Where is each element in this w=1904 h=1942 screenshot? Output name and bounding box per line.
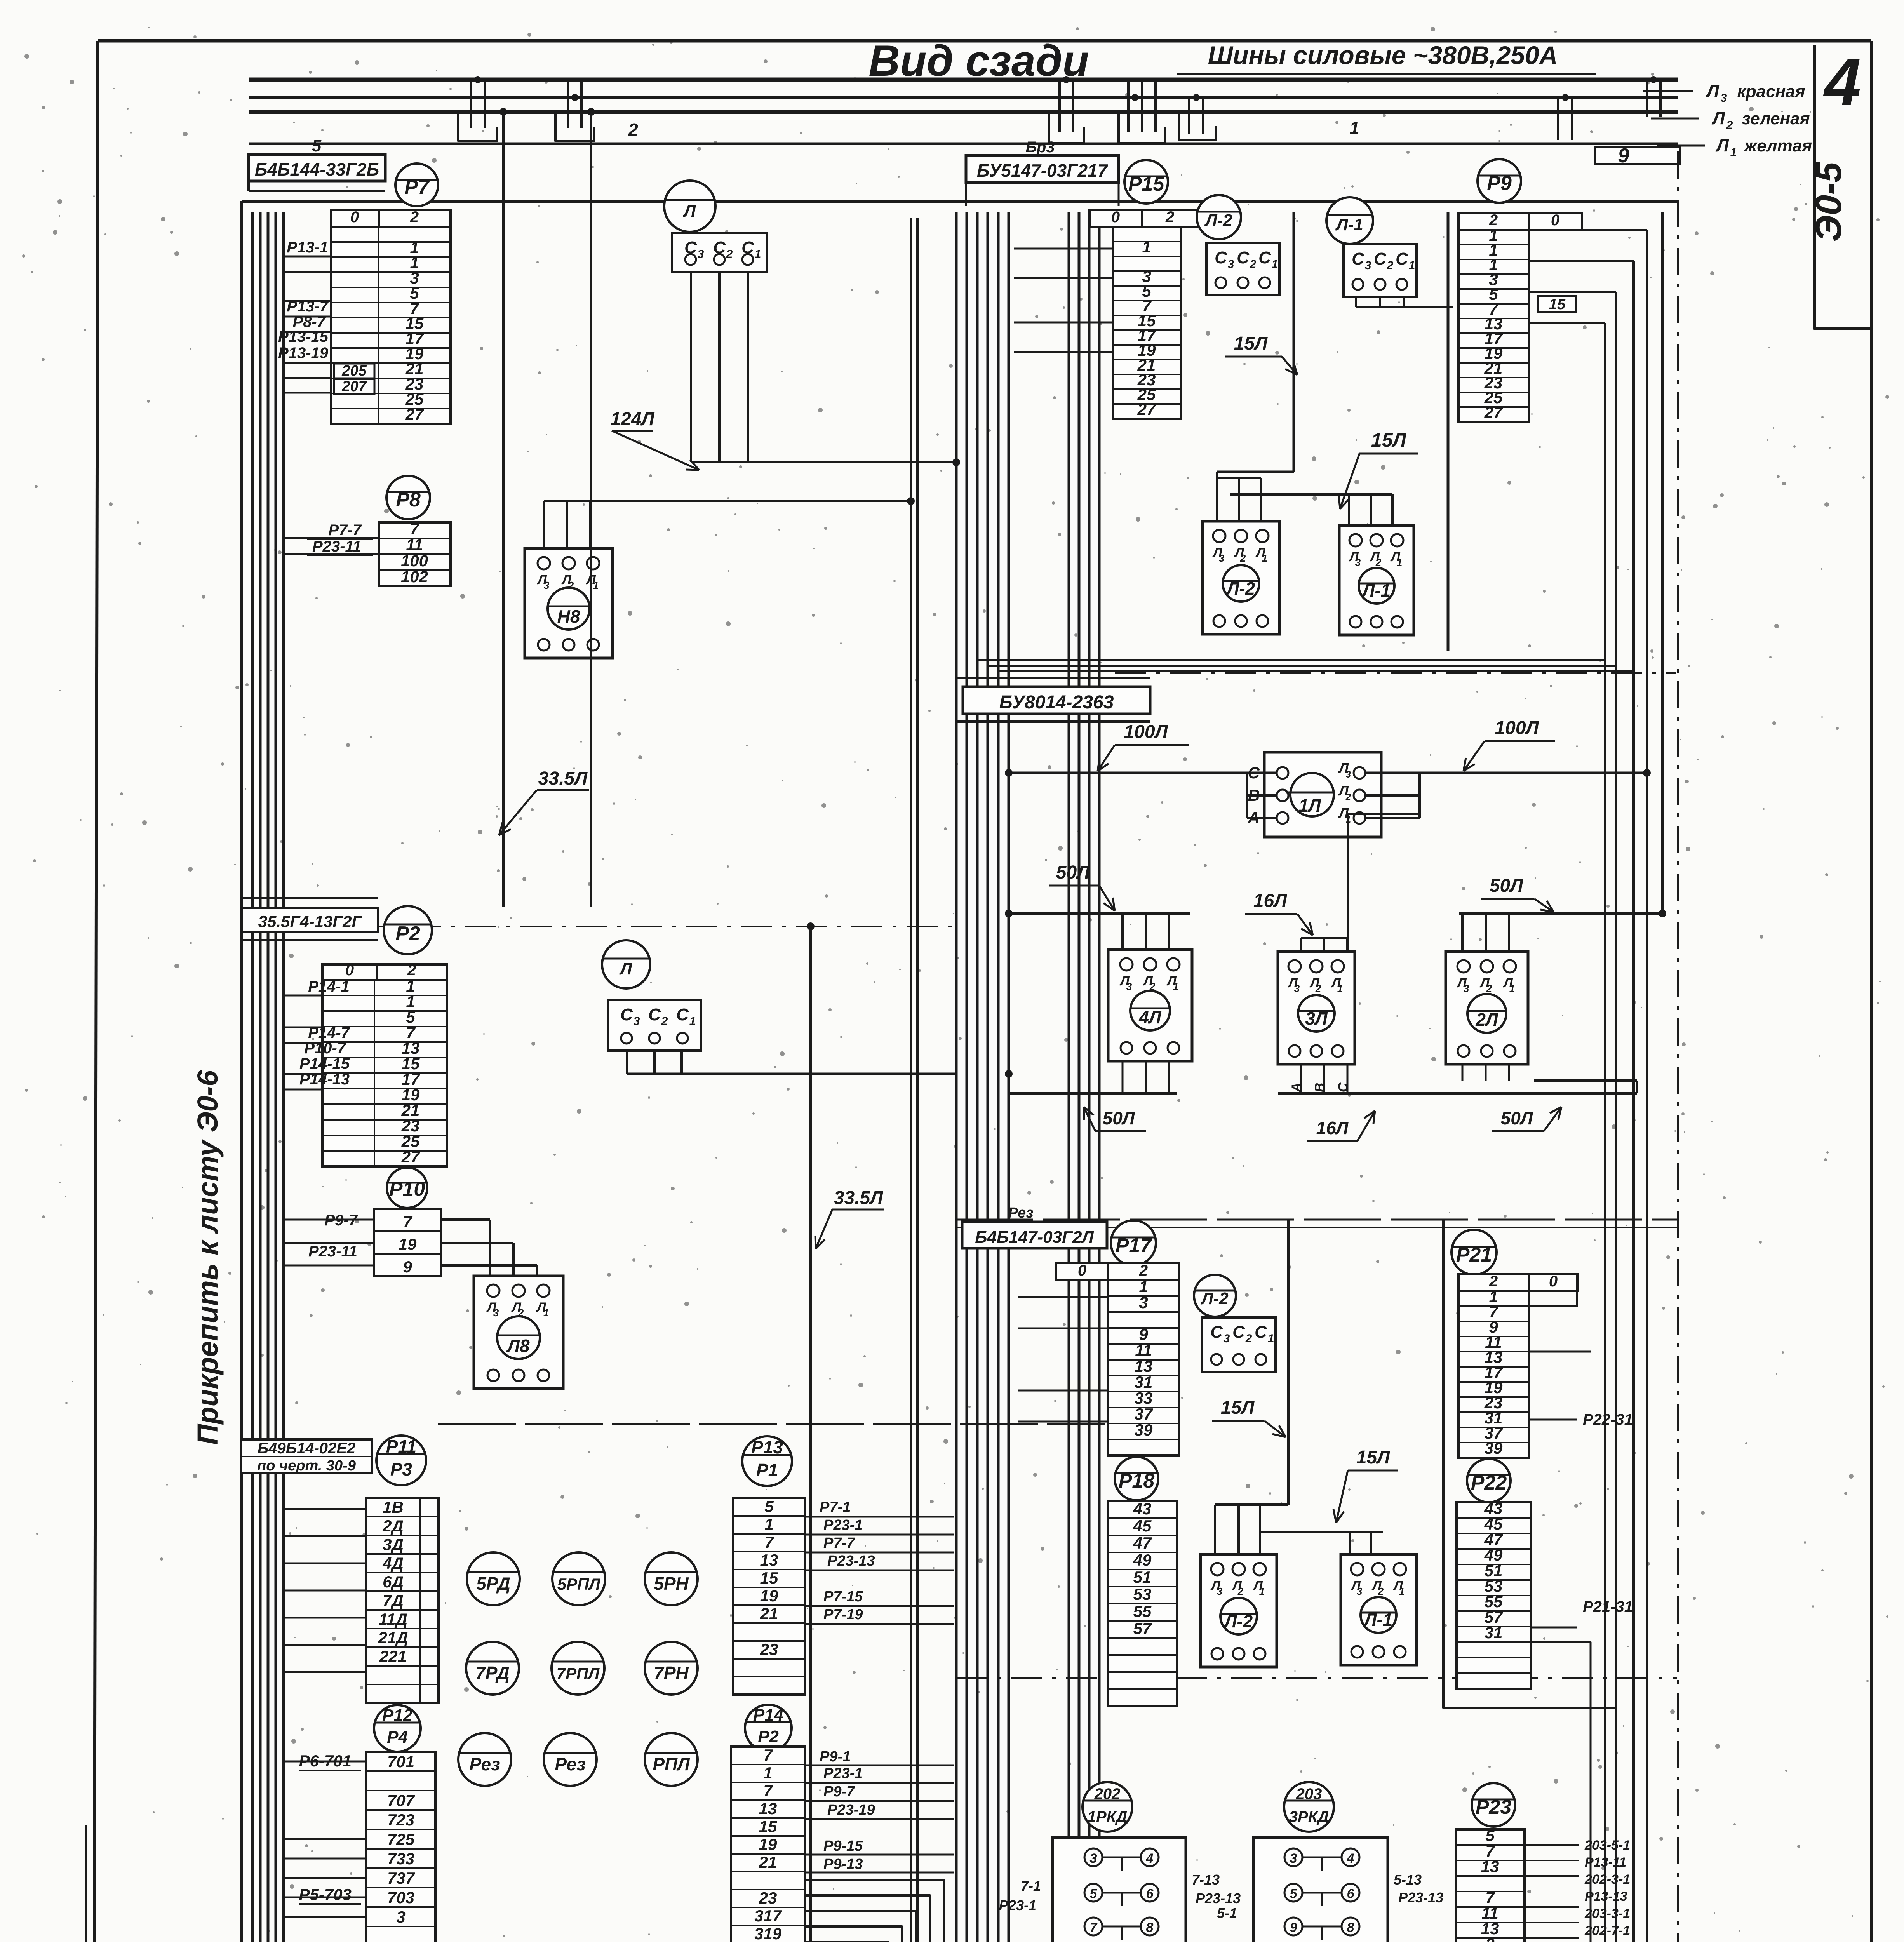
svg-text:3: 3 [1290, 1851, 1297, 1866]
svg-text:15Л: 15Л [1234, 333, 1268, 354]
svg-text:15: 15 [1549, 296, 1566, 313]
svg-text:1: 1 [1262, 552, 1267, 564]
svg-text:Рез: Рез [555, 1754, 585, 1774]
1Л left terminals С В А [1277, 767, 1288, 779]
wire 16Л drop [1348, 813, 1420, 815]
svg-text:9: 9 [1139, 1325, 1148, 1343]
svg-text:39: 39 [1485, 1439, 1503, 1457]
svg-text:1: 1 [1259, 1585, 1265, 1597]
svg-text:желтая: желтая [1744, 136, 1812, 155]
svg-text:Р13-1: Р13-1 [287, 239, 328, 256]
relay designator P10 [387, 1168, 427, 1208]
mid cable pair 124Л riser [910, 218, 912, 1942]
svg-text:27: 27 [1137, 400, 1156, 418]
svg-text:733: 733 [387, 1850, 414, 1868]
svg-text:Р7-19: Р7-19 [823, 1606, 863, 1623]
wires from Л unit down to cross run 124Л [690, 272, 692, 462]
terminal strip P21 [1458, 1291, 1529, 1458]
svg-text:5: 5 [1290, 1886, 1298, 1901]
svg-text:221: 221 [379, 1647, 407, 1665]
svg-text:2: 2 [568, 579, 574, 591]
svg-text:Рез: Рез [1008, 1205, 1033, 1221]
svg-text:317: 317 [754, 1907, 782, 1925]
box 9 cable tag [1595, 147, 1680, 164]
svg-text:0: 0 [1078, 1262, 1086, 1279]
wire stubs P12 [283, 1761, 366, 1763]
svg-text:124Л: 124Л [610, 409, 654, 430]
svg-text:33.5Л: 33.5Л [538, 768, 588, 789]
svg-text:703: 703 [387, 1888, 414, 1907]
svg-text:3: 3 [493, 1307, 499, 1319]
svg-text:3Д: 3Д [383, 1535, 404, 1554]
svg-text:Р23: Р23 [1476, 1796, 1512, 1818]
svg-text:С: С [648, 1005, 661, 1024]
svg-text:202: 202 [1094, 1785, 1121, 1803]
svg-text:по черт. 30-9: по черт. 30-9 [257, 1458, 356, 1474]
relay circle Рез2 [544, 1733, 597, 1786]
terminal strip P18 [1108, 1501, 1177, 1706]
svg-text:15Л: 15Л [1356, 1447, 1390, 1468]
nested elbow wires P9 to right bundle [1529, 229, 1647, 231]
svg-text:Р11: Р11 [386, 1436, 416, 1456]
pump unit 1Л [1264, 752, 1381, 837]
svg-text:50Л: 50Л [1056, 862, 1090, 883]
svg-text:15: 15 [760, 1569, 778, 1587]
wire run 50Л left [1009, 912, 1190, 915]
svg-text:3: 3 [1485, 1935, 1494, 1942]
svg-text:37: 37 [1135, 1405, 1153, 1423]
riser 50Л right [1661, 212, 1664, 914]
svg-text:5: 5 [764, 1497, 774, 1516]
svg-text:202-7-1: 202-7-1 [1584, 1923, 1630, 1938]
svg-text:Р21-31: Р21-31 [1583, 1598, 1633, 1615]
svg-text:207: 207 [341, 378, 367, 395]
svg-text:1: 1 [763, 1764, 772, 1782]
right bundle verticals [1604, 323, 1606, 1942]
svg-text:7РПЛ: 7РПЛ [557, 1664, 600, 1683]
relay designator P14 P2c [745, 1705, 792, 1751]
svg-text:4: 4 [1823, 45, 1861, 119]
svg-text:1: 1 [1349, 118, 1359, 138]
svg-text:16Л: 16Л [1316, 1118, 1349, 1138]
switch designator 202 1РКД [1083, 1782, 1132, 1832]
svg-text:5РН: 5РН [654, 1573, 689, 1594]
svg-text:11: 11 [1135, 1341, 1152, 1359]
relay circle 7РН [645, 1642, 698, 1695]
svg-text:19: 19 [399, 1235, 417, 1253]
relay designator P17 [1111, 1220, 1156, 1265]
svg-text:Бр3: Бр3 [1026, 139, 1055, 156]
svg-text:2Д: 2Д [382, 1517, 404, 1535]
svg-text:27: 27 [401, 1148, 420, 1166]
svg-text:1: 1 [1139, 1277, 1148, 1296]
cable tag БУ8014-2363 [956, 677, 1150, 679]
svg-text:2: 2 [1345, 792, 1351, 802]
svg-text:5: 5 [1090, 1886, 1098, 1901]
svg-text:С: С [1215, 248, 1227, 267]
svg-text:Р13-7: Р13-7 [287, 298, 329, 315]
svg-text:1В: 1В [383, 1498, 404, 1516]
svg-text:3: 3 [1355, 557, 1361, 568]
svg-text:Р9-7: Р9-7 [325, 1212, 358, 1229]
svg-text:Р23-13: Р23-13 [1398, 1890, 1443, 1905]
left panel edge [240, 201, 243, 1942]
svg-text:1: 1 [1268, 1332, 1274, 1345]
terminal strip P9 [1458, 230, 1529, 422]
terminal strip P21 header [1458, 1274, 1529, 1291]
svg-text:21: 21 [759, 1853, 777, 1871]
wires Н8 to riser [543, 501, 545, 548]
wires Л8 to left bundle [441, 1218, 490, 1221]
motor unit 3Л [1278, 952, 1355, 1064]
svg-text:2: 2 [1250, 258, 1257, 271]
svg-text:1: 1 [1272, 258, 1278, 271]
svg-text:Р8: Р8 [396, 489, 421, 511]
svg-text:6: 6 [1146, 1886, 1154, 1901]
svg-text:3: 3 [698, 248, 704, 261]
left cable bundle [251, 212, 254, 1942]
svg-text:3: 3 [1346, 769, 1351, 780]
svg-text:Шины силовые ~380В,250А: Шины силовые ~380В,250А [1208, 41, 1558, 70]
svg-text:203-5-1: 203-5-1 [1584, 1838, 1630, 1853]
terminal strip P13 [733, 1498, 805, 1695]
svg-text:Р9-7: Р9-7 [823, 1784, 855, 1800]
terminal strip P10 [374, 1209, 441, 1276]
svg-text:2Л: 2Л [1475, 1009, 1498, 1030]
svg-text:Р23-13: Р23-13 [1196, 1890, 1241, 1906]
svg-text:1: 1 [1173, 981, 1178, 992]
svg-text:2: 2 [628, 120, 638, 140]
svg-text:А: А [1289, 1083, 1304, 1093]
svg-text:Р7-7: Р7-7 [823, 1535, 855, 1551]
relay circle 7РПЛ [552, 1642, 604, 1695]
svg-text:100Л: 100Л [1124, 722, 1168, 742]
svg-text:Р23-11: Р23-11 [312, 538, 361, 555]
svg-text:Р9: Р9 [1487, 172, 1512, 195]
svg-text:55: 55 [1133, 1602, 1152, 1620]
svg-text:7-1: 7-1 [1021, 1878, 1041, 1894]
svg-text:8: 8 [1146, 1920, 1154, 1935]
svg-text:19: 19 [760, 1587, 778, 1605]
svg-text:Р22: Р22 [1471, 1472, 1507, 1494]
terminal strip P14 [731, 1747, 805, 1942]
wires from mid Л unit to cross run [626, 1051, 628, 1074]
terminal strip P11 [366, 1498, 439, 1703]
svg-text:53: 53 [1133, 1585, 1152, 1603]
svg-text:Л-2: Л-2 [1224, 1611, 1253, 1631]
lamp unit Л-2 top with С3С2С1 [1197, 195, 1241, 239]
svg-text:С: С [620, 1005, 633, 1024]
left border inner line [85, 1825, 86, 1942]
svg-text:27: 27 [405, 405, 424, 423]
svg-text:Э0-5: Э0-5 [1808, 162, 1849, 242]
svg-text:15Л: 15Л [1221, 1397, 1255, 1418]
svg-text:319: 319 [754, 1925, 782, 1942]
svg-text:4: 4 [1146, 1851, 1154, 1866]
svg-text:203: 203 [1296, 1785, 1322, 1803]
svg-text:202-3-1: 202-3-1 [1584, 1872, 1630, 1887]
wire run to Л-1 lamp mid [1260, 1531, 1383, 1533]
svg-text:11Д: 11Д [379, 1610, 407, 1628]
right section cut dash-dot line [1677, 151, 1679, 1942]
P21 right label Р22-31 [1529, 1419, 1577, 1421]
svg-text:13: 13 [760, 1551, 778, 1569]
svg-text:Р7-15: Р7-15 [823, 1589, 863, 1605]
P22 right label Р21-31 [1531, 1627, 1577, 1629]
svg-text:Р18: Р18 [1119, 1470, 1155, 1492]
svg-text:0: 0 [345, 962, 354, 979]
relay designator P11 P3 [376, 1436, 426, 1485]
terminal strip P8 [379, 522, 451, 586]
svg-text:725: 725 [387, 1830, 415, 1848]
svg-text:Р14-13: Р14-13 [299, 1071, 350, 1088]
relay circle РПЛ [645, 1733, 698, 1786]
elbow wires P21 P22 to bundle [1529, 1274, 1577, 1306]
signal lamp block Л-2 mid [1201, 1554, 1277, 1667]
svg-text:102: 102 [401, 567, 428, 586]
svg-text:1: 1 [764, 1515, 773, 1533]
svg-text:701: 701 [387, 1752, 414, 1771]
svg-text:Р12: Р12 [382, 1706, 413, 1725]
divider right panel y1733 [1115, 672, 1676, 674]
switch designator 203 3РКД [1284, 1782, 1334, 1832]
svg-text:3: 3 [396, 1908, 405, 1926]
svg-text:3Л: 3Л [1305, 1008, 1328, 1028]
svg-text:Л: Л [1706, 81, 1720, 101]
terminal strip P12 [366, 1752, 435, 1942]
bus hanger at x3080 [1188, 97, 1190, 134]
svg-text:15: 15 [759, 1817, 777, 1836]
cable tag 35.5Г4-13Г2Г [242, 897, 378, 899]
svg-text:23: 23 [759, 1889, 777, 1907]
relay designator P15 [1124, 160, 1168, 204]
wires Л-1 down to P9 [1355, 297, 1357, 307]
svg-text:Р9-15: Р9-15 [823, 1838, 863, 1854]
relay circle 5РПЛ [552, 1552, 605, 1605]
power bus line 2 [249, 96, 1678, 99]
svg-text:1: 1 [1142, 238, 1151, 256]
svg-text:13: 13 [1481, 1857, 1499, 1876]
svg-text:С: С [1255, 1323, 1267, 1342]
terminal strip P17 [1108, 1280, 1179, 1455]
svg-text:0: 0 [1549, 1273, 1558, 1290]
panel top edge line 5 [242, 200, 1678, 203]
svg-text:45: 45 [1133, 1517, 1152, 1535]
svg-text:51: 51 [1133, 1568, 1152, 1586]
svg-text:Р7: Р7 [404, 176, 430, 198]
svg-text:Б4Б144-33Г2Б: Б4Б144-33Г2Б [255, 159, 379, 179]
wires 1Л left to bundle [1009, 772, 1277, 774]
bus hanger at x1230 [470, 80, 472, 128]
bus hanger at x4030 [1557, 97, 1559, 140]
sub-panel outline right [1443, 1220, 1616, 1708]
svg-text:3: 3 [1721, 92, 1727, 104]
svg-text:Р10: Р10 [389, 1178, 425, 1201]
svg-text:Р21: Р21 [1456, 1244, 1492, 1266]
svg-text:Р1: Р1 [756, 1460, 778, 1480]
svg-text:РПЛ: РПЛ [653, 1754, 690, 1774]
svg-text:50Л: 50Л [1103, 1108, 1135, 1128]
motor unit 2Л [1446, 952, 1528, 1064]
svg-text:5РД: 5РД [476, 1573, 510, 1594]
relay designator P23 [1472, 1783, 1515, 1827]
lamp unit Л mid with С3 С2 С1 terminals [602, 940, 650, 988]
svg-text:49: 49 [1133, 1551, 1152, 1569]
svg-text:4: 4 [1347, 1851, 1354, 1866]
wire stubs P8 [283, 537, 379, 539]
svg-text:57: 57 [1133, 1619, 1152, 1637]
svg-text:Р13: Р13 [751, 1437, 783, 1457]
wire stubs P7 to bundle [283, 256, 331, 258]
svg-text:2: 2 [1237, 1585, 1244, 1597]
svg-text:Рез: Рез [469, 1754, 500, 1774]
svg-text:5: 5 [312, 136, 322, 155]
svg-text:Р14-15: Р14-15 [299, 1055, 350, 1072]
svg-text:Л-2: Л-2 [1200, 1289, 1229, 1308]
svg-text:Р2: Р2 [758, 1727, 779, 1746]
svg-text:3РКД: 3РКД [1289, 1808, 1329, 1825]
svg-text:1РКД: 1РКД [1088, 1808, 1127, 1825]
svg-text:7РД: 7РД [475, 1663, 510, 1683]
svg-text:красная: красная [1737, 82, 1805, 101]
terminal strip P7 [331, 227, 451, 424]
svg-text:3: 3 [1139, 1293, 1148, 1312]
svg-text:2: 2 [1165, 209, 1174, 226]
svg-text:7: 7 [763, 1782, 773, 1800]
svg-text:Л-2: Л-2 [1226, 578, 1255, 599]
svg-text:Р13-11: Р13-11 [1585, 1855, 1626, 1870]
svg-text:11: 11 [406, 536, 423, 554]
divider right panel y3140 [955, 1219, 1677, 1221]
svg-text:1: 1 [1337, 983, 1343, 994]
signal lamp block Л-1 mid [1341, 1554, 1417, 1665]
svg-text:Л-1: Л-1 [1361, 580, 1391, 600]
lamp unit Л8 [474, 1276, 563, 1389]
switch block 203 [1253, 1838, 1388, 1942]
svg-text:39: 39 [1135, 1421, 1153, 1439]
cable tag Б49Б14-02Е2 по черт.30-9 [241, 1439, 372, 1473]
svg-text:2: 2 [661, 1015, 668, 1028]
svg-text:2: 2 [1375, 557, 1382, 568]
riser x3728 [1447, 212, 1450, 651]
svg-text:27: 27 [1484, 403, 1503, 421]
svg-text:33: 33 [1135, 1389, 1153, 1407]
power bus line 3 [249, 110, 1678, 114]
svg-text:9: 9 [403, 1258, 412, 1276]
wire stubs P13 right [805, 1516, 954, 1518]
svg-text:2: 2 [1240, 552, 1246, 564]
svg-text:Р23-19: Р23-19 [827, 1802, 875, 1818]
svg-text:Б4Б147-03Г2Л: Б4Б147-03Г2Л [975, 1228, 1094, 1247]
relay designator P18 [1115, 1457, 1158, 1500]
sheet number box 4 [1814, 45, 1871, 328]
divider left-center y3666 [438, 1423, 1105, 1425]
cable 33.5Л riser [809, 930, 812, 1942]
svg-text:4Л: 4Л [1138, 1007, 1162, 1027]
svg-text:13: 13 [759, 1799, 777, 1818]
svg-text:Л-1: Л-1 [1335, 215, 1363, 234]
svg-text:1: 1 [593, 579, 599, 591]
svg-text:Р3: Р3 [390, 1459, 412, 1479]
svg-text:С: С [1237, 248, 1250, 267]
relay designator P2 [384, 906, 432, 954]
wire stubs P14 right [805, 1765, 954, 1766]
svg-text:1: 1 [1397, 557, 1402, 568]
wire band to right bundle y1700 [977, 659, 1605, 661]
svg-text:9: 9 [1290, 1920, 1297, 1935]
relay designator P7 [395, 164, 438, 206]
svg-text:БУ8014-2363: БУ8014-2363 [999, 692, 1114, 713]
svg-text:Р13-19: Р13-19 [278, 345, 329, 362]
lamp unit Л-2 mid with С3С2С1 [1194, 1275, 1236, 1317]
svg-text:50Л: 50Л [1501, 1108, 1533, 1128]
svg-text:35.5Г4-13Г2Г: 35.5Г4-13Г2Г [258, 912, 363, 931]
svg-text:6: 6 [1347, 1886, 1355, 1901]
svg-text:7РН: 7РН [654, 1663, 689, 1683]
svg-text:1: 1 [689, 1015, 696, 1028]
svg-text:0: 0 [1551, 212, 1559, 229]
svg-text:Н8: Н8 [557, 606, 580, 626]
wire stubs P10 [283, 1219, 374, 1221]
terminal strip P9 header [1458, 213, 1529, 230]
svg-text:2: 2 [1315, 983, 1321, 994]
svg-text:21: 21 [760, 1604, 778, 1623]
terminal strip P23 [1456, 1829, 1525, 1942]
central cable bundle between panels [955, 212, 958, 1942]
svg-text:9: 9 [1618, 144, 1629, 167]
svg-text:2: 2 [410, 209, 419, 226]
svg-text:Р13-13: Р13-13 [1585, 1889, 1627, 1904]
terminal strip P15 [1113, 227, 1181, 419]
svg-text:3: 3 [1228, 258, 1234, 271]
svg-text:Л-1: Л-1 [1363, 1610, 1393, 1630]
svg-text:2: 2 [726, 248, 733, 261]
svg-text:С: С [1374, 249, 1387, 268]
switch block 202 [1053, 1838, 1186, 1942]
wire stubs P17 left [1018, 1296, 1108, 1298]
svg-text:зеленая: зеленая [1742, 109, 1810, 128]
motor unit 4Л [1108, 950, 1192, 1061]
svg-text:7-13: 7-13 [1192, 1872, 1220, 1888]
svg-text:Р23-1: Р23-1 [823, 1517, 863, 1533]
svg-text:203-3-1: 203-3-1 [1584, 1906, 1630, 1921]
svg-text:Р23-11: Р23-11 [308, 1243, 357, 1260]
relay circle Рез1 [458, 1733, 511, 1786]
svg-text:5РПЛ: 5РПЛ [557, 1575, 601, 1593]
svg-text:С: С [1210, 1323, 1223, 1342]
svg-text:0: 0 [1111, 209, 1120, 226]
terminal strip P15 header [1089, 210, 1142, 227]
svg-text:23: 23 [760, 1640, 778, 1658]
right-mid cable bundle [1068, 212, 1070, 1942]
signal lamp block Л-1 [1339, 526, 1414, 635]
svg-text:31: 31 [1135, 1373, 1153, 1391]
svg-text:47: 47 [1133, 1534, 1152, 1552]
wire stubs P2 [283, 995, 322, 997]
svg-text:7: 7 [764, 1533, 774, 1551]
terminal strip P17 header [1056, 1263, 1108, 1280]
svg-text:3: 3 [1217, 1585, 1223, 1597]
svg-text:Л-2: Л-2 [1204, 211, 1232, 230]
svg-text:В: В [1312, 1083, 1327, 1093]
terminal strip P2 [322, 980, 447, 1166]
svg-text:5-13: 5-13 [1394, 1872, 1422, 1888]
svg-text:3: 3 [1090, 1851, 1097, 1866]
svg-text:1: 1 [755, 248, 761, 261]
wire stubs P11 [283, 1508, 366, 1510]
svg-text:Р14-7: Р14-7 [308, 1024, 350, 1041]
svg-text:7Д: 7Д [383, 1591, 404, 1610]
